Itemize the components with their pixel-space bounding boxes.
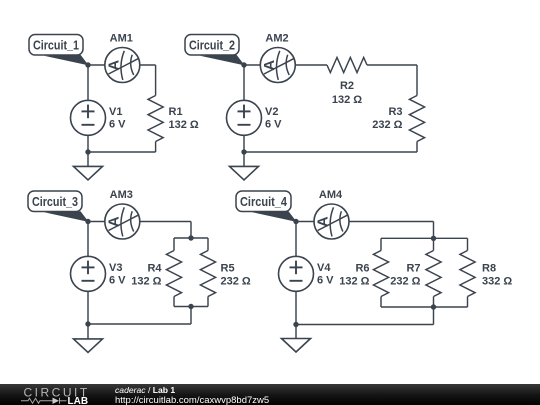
junction c4 rail (293, 322, 298, 327)
circuit 2 (244, 57, 425, 166)
wire node3 down to V3 (87, 222, 89, 257)
svg-text:132 Ω: 132 Ω (339, 276, 369, 288)
wire bottom rail c2 (416, 142, 418, 153)
voltage source V4 6 V (279, 256, 335, 291)
svg-text:R8: R8 (482, 262, 496, 274)
svg-text:6 V: 6 V (265, 119, 282, 131)
svg-text:R3: R3 (388, 106, 402, 118)
svg-text:Circuit_2: Circuit_2 (189, 39, 235, 53)
footer bar (0, 384, 540, 405)
wire V1 bottom to ground (87, 135, 89, 166)
svg-text:6 V: 6 V (109, 275, 126, 287)
resistor R7 (433, 238, 435, 250)
wire V2 bottom to ground (243, 135, 245, 166)
voltage source V1 6 V (71, 100, 127, 135)
svg-text:332 Ω: 332 Ω (482, 276, 512, 288)
voltage source V2 6 V (227, 100, 283, 135)
wire parallel bottom to rail c3 (190, 307, 192, 325)
wire R2 to R3 top (367, 64, 417, 66)
circuit 3 (88, 222, 216, 339)
wire node1 to AM1 (88, 64, 105, 66)
wire AM1 to R1 top (140, 64, 156, 66)
junction node1 (85, 62, 90, 67)
svg-text:6 V: 6 V (109, 119, 126, 131)
svg-text:AM1: AM1 (110, 33, 133, 45)
footer text (115, 386, 269, 405)
svg-text:AM3: AM3 (110, 189, 133, 201)
svg-text:R6: R6 (355, 262, 369, 274)
node label Circuit_3 (28, 191, 89, 222)
ammeter AM4 (314, 204, 349, 239)
svg-text:132 Ω: 132 Ω (169, 119, 199, 131)
junction c3 partop (188, 235, 193, 240)
svg-text:232 Ω: 232 Ω (390, 276, 420, 288)
junction node3 (85, 219, 90, 224)
svg-text:V4: V4 (317, 262, 331, 274)
svg-text:AM4: AM4 (319, 189, 343, 201)
svg-text:R4: R4 (147, 262, 162, 274)
wire parallel bottom to rail c4 (433, 307, 435, 325)
svg-text:6 V: 6 V (317, 275, 334, 287)
svg-text:Circuit_3: Circuit_3 (32, 195, 78, 209)
node label Circuit_2 (185, 35, 245, 66)
wire node2 to AM2 (244, 64, 260, 66)
node label Circuit_4 (236, 191, 297, 222)
resistor R8 (434, 237, 468, 239)
circuit 1 (88, 65, 163, 166)
wire node2 down to V2 (243, 65, 245, 100)
junction c4 partop (431, 236, 436, 241)
svg-text:R2: R2 (340, 80, 354, 92)
voltage source V3 6 V (71, 256, 127, 291)
resistor R6 (381, 237, 434, 239)
resistor R5 (191, 237, 208, 239)
svg-text:AM2: AM2 (265, 33, 288, 45)
junction c1 bottom (85, 149, 90, 154)
svg-text:Circuit_4: Circuit_4 (240, 195, 287, 209)
ground (74, 339, 103, 353)
ground (74, 166, 103, 180)
svg-text:V2: V2 (265, 106, 278, 118)
svg-text:132 Ω: 132 Ω (332, 94, 362, 106)
svg-text:A: A (315, 216, 332, 227)
wire V3 bottom to ground (87, 291, 89, 338)
wire node4 to AM4 (296, 221, 314, 223)
junction c2 bottom (241, 149, 246, 154)
ammeter AM2 (260, 48, 295, 83)
svg-text:R7: R7 (406, 262, 420, 274)
ammeter AM3 (105, 204, 140, 239)
svg-text:V1: V1 (109, 106, 122, 118)
svg-text:A: A (105, 216, 122, 227)
svg-text:A: A (105, 60, 122, 71)
wire AM4 to parallel top (349, 221, 434, 223)
wire node1 down to V1 (87, 65, 89, 100)
resistor R3 (409, 96, 424, 142)
svg-text:R5: R5 (221, 262, 235, 274)
wire bottom rail c1 (155, 142, 157, 153)
svg-text:R1: R1 (169, 106, 183, 118)
svg-text:232 Ω: 232 Ω (372, 119, 402, 131)
wire V4 bottom to ground (295, 291, 297, 338)
wire AM2 to R2 (295, 64, 327, 66)
junction node2 (241, 62, 246, 67)
svg-text:V3: V3 (109, 262, 122, 274)
junction node4 (293, 219, 298, 224)
resistor R2 (327, 57, 367, 72)
svg-text:A: A (261, 60, 278, 71)
ammeter AM1 (105, 48, 140, 83)
ground (230, 166, 259, 180)
wire node4 down to V4 (295, 222, 297, 257)
svg-text:232 Ω: 232 Ω (221, 276, 251, 288)
CircuitLab logo (0, 384, 100, 405)
wire AM3 to parallel top (140, 221, 191, 223)
resistor R1 (148, 96, 163, 142)
wire node3 to AM3 (88, 221, 105, 223)
ground (282, 339, 311, 353)
node label Circuit_1 (29, 35, 89, 66)
circuit 4 (296, 222, 475, 339)
svg-text:132 Ω: 132 Ω (131, 276, 161, 288)
junction c3 rail (85, 321, 90, 326)
junction c4 parbottom (431, 304, 436, 309)
junction c3 parbottom (188, 304, 193, 309)
svg-text:LAB: LAB (68, 396, 89, 405)
svg-text:Circuit_1: Circuit_1 (33, 39, 79, 53)
resistor R4 (174, 237, 191, 239)
